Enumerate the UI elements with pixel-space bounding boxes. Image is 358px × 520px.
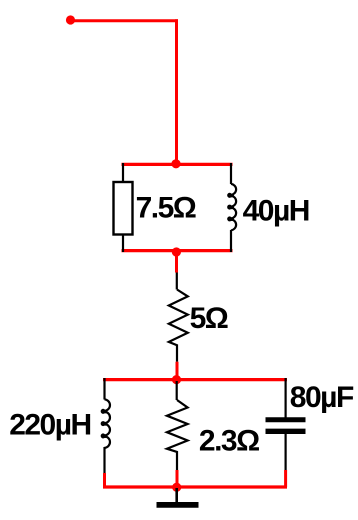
node junction bottom of RLC section / ground node [172,483,181,492]
node junction top of RLC section [172,375,181,384]
svg-text:80µF: 80µF [290,381,354,414]
node junction bottom of RL loop [172,247,181,256]
svg-text:220µH: 220µH [9,409,91,442]
svg-text:2.3Ω: 2.3Ω [199,425,259,458]
wire lead top of R3 [176,381,178,400]
wire lead top of L2 [103,378,105,400]
resistor R3 2.3ohm zigzag [167,400,188,470]
wire parallel-loop top [122,163,233,166]
capacitor C1 80uF bottom plate [266,429,306,434]
node input terminal dot [66,15,75,24]
wire parallel-loop bottom [122,249,233,252]
inductor L2 220uH coil [102,399,110,448]
wire lead bottom of C1 [285,434,287,470]
ground bar [157,502,199,508]
svg-text:7.5Ω: 7.5Ω [136,192,196,225]
wire red stub bottom-right corner [284,470,287,487]
wire lead bottom of R3 [176,470,179,487]
wire parallel-section bottom [103,485,287,488]
svg-text:40µH: 40µH [243,195,309,228]
resistor R2 5ohm zigzag [169,290,188,362]
wire top vertical drop [175,19,178,165]
ground stub [175,488,178,503]
wire lead bottom of L2 [103,447,105,473]
wire lead bottom of L1 [230,230,232,252]
wire lead bottom of R1 [122,235,124,253]
wire junction to R2 [175,252,178,273]
wire top horizontal [69,19,178,22]
node junction top of RL loop [171,159,180,168]
wire lead bottom of R2 [176,362,179,380]
svg-text:5Ω: 5Ω [190,302,228,335]
capacitor C1 80uF top plate [266,417,306,422]
inductor L1 40uH coil [228,184,236,231]
wire lead top of L1 [230,163,232,184]
wire lead top of C1 [285,378,287,418]
wire red stub bottom-left corner [103,473,106,487]
wire parallel-section top [103,378,287,381]
wire lead top of R1 [122,163,124,182]
wire lead top of R2 [176,273,178,290]
resistor R1 7.5ohm body [114,182,133,235]
